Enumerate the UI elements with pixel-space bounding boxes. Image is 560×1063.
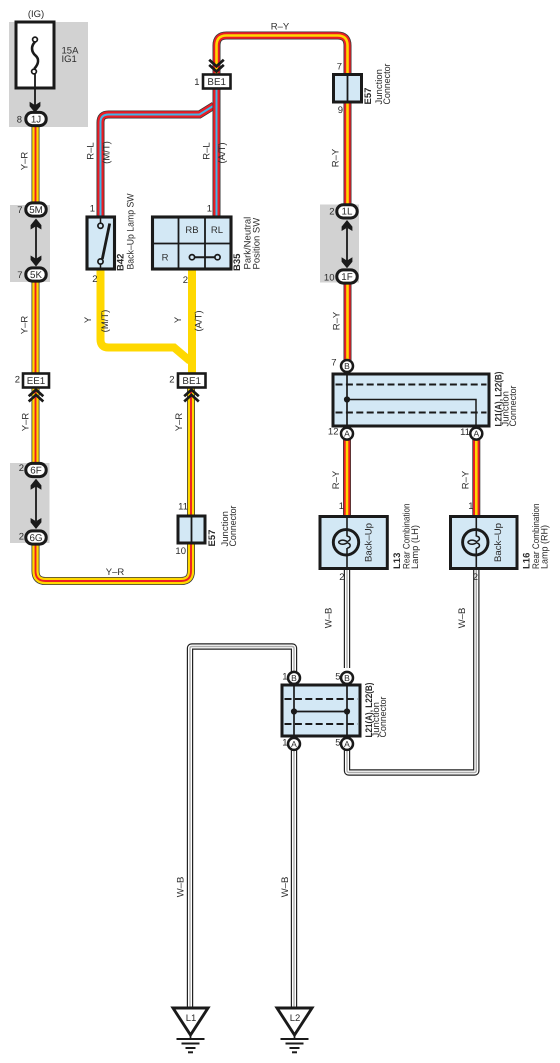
- svg-text:1F: 1F: [341, 272, 352, 283]
- wire Y-R: 6G down, right along bottom, up to E57 pin 10: [36, 540, 192, 581]
- svg-text:11: 11: [460, 427, 470, 438]
- pin circle A5 (junction lower): [341, 738, 353, 750]
- svg-text:R–Y: R–Y: [461, 470, 472, 489]
- svg-text:1: 1: [468, 501, 473, 512]
- connector rect BE1 (top, pin 1): [203, 75, 231, 89]
- wire R-Y: junction 12A down to L13 pin 1: [343, 439, 351, 519]
- wire R-L (M/T): B42 pin 1 up, right, diagonal to A/T line: [101, 106, 215, 220]
- svg-text:L1: L1: [186, 1013, 197, 1024]
- svg-text:W–B: W–B: [280, 877, 291, 898]
- svg-text:Lamp (RH): Lamp (RH): [540, 525, 551, 569]
- pin circle B5 (junction lower): [341, 672, 353, 684]
- svg-text:A: A: [473, 429, 479, 439]
- svg-text:9: 9: [338, 105, 343, 116]
- svg-text:2: 2: [183, 275, 188, 286]
- svg-text:2: 2: [169, 375, 174, 386]
- svg-text:Y–R: Y–R: [21, 413, 32, 432]
- double arrow 1L-1F: [342, 220, 353, 268]
- svg-text:Y–R: Y–R: [174, 413, 185, 432]
- wire Y (M/T): B42 pin 2 to merge: [101, 268, 191, 361]
- svg-text:1J: 1J: [31, 114, 41, 125]
- wire Y-R: EE1 to 6F: [32, 385, 40, 467]
- arrow from fuse to 1J: [30, 74, 41, 113]
- connector oval 1F: [337, 270, 357, 283]
- pin circle B1 (junction lower): [288, 672, 300, 684]
- lamp L13 Rear Combination Lamp LH: [320, 517, 387, 569]
- svg-text:R–Y: R–Y: [331, 470, 342, 489]
- svg-text:1: 1: [207, 204, 212, 215]
- svg-text:Y–R: Y–R: [20, 316, 31, 335]
- svg-text:5: 5: [335, 672, 340, 683]
- svg-text:1: 1: [339, 501, 344, 512]
- svg-text:Connector: Connector: [378, 697, 389, 738]
- svg-text:7: 7: [331, 358, 336, 369]
- svg-text:R–L: R–L: [86, 142, 97, 159]
- svg-text:Back–Up Lamp SW: Back–Up Lamp SW: [126, 193, 137, 269]
- svg-text:10: 10: [324, 273, 335, 284]
- svg-text:(M/T): (M/T): [100, 310, 111, 333]
- chevrons above BE1 top: [209, 60, 224, 72]
- junction connector E57 (top right): [334, 75, 362, 103]
- svg-text:R–L: R–L: [202, 142, 213, 159]
- pin circle A1 (junction lower): [288, 738, 300, 750]
- svg-text:(A/T): (A/T): [194, 310, 205, 331]
- junction connector L21(A),L22(B) lower: [282, 685, 360, 736]
- svg-text:E57: E57: [207, 530, 218, 547]
- wire W-B: L16 pin 2 down, left, up to junction A5: [347, 567, 476, 773]
- wire W-B: junction A1 down to ground L2: [291, 749, 297, 1009]
- svg-text:Connector: Connector: [508, 386, 519, 427]
- svg-text:R–Y: R–Y: [331, 148, 342, 167]
- svg-text:7: 7: [337, 62, 342, 73]
- svg-text:L2: L2: [290, 1013, 301, 1024]
- svg-text:W–B: W–B: [176, 877, 187, 898]
- svg-text:Position SW: Position SW: [252, 218, 263, 270]
- svg-text:2: 2: [329, 207, 334, 218]
- svg-text:1: 1: [194, 77, 199, 88]
- shield gray box around 5M/5K connectors: [10, 205, 50, 282]
- double arrow 5M-5K: [31, 219, 42, 267]
- chevrons below EE1: [29, 390, 44, 402]
- wire Y-R: 1J to 5M: [32, 122, 40, 206]
- svg-text:B35: B35: [232, 253, 243, 271]
- chevrons below BE1 pin2: [184, 390, 199, 402]
- switch B42 Back-Up Lamp SW: [87, 217, 115, 269]
- svg-text:B: B: [291, 673, 297, 683]
- wire Y-R: 5K to EE1: [32, 280, 40, 380]
- connector rect EE1: [23, 374, 49, 388]
- svg-text:2: 2: [339, 572, 344, 583]
- connector oval 6F: [26, 463, 46, 476]
- shield gray box around fuse IG: [9, 22, 88, 127]
- wire R-Y: BE1 top loop over to E57 pin 7: [217, 36, 348, 79]
- svg-text:12: 12: [328, 427, 339, 438]
- svg-text:11: 11: [178, 502, 188, 513]
- svg-text:BE1: BE1: [182, 376, 201, 387]
- svg-text:5: 5: [335, 738, 340, 749]
- svg-text:6G: 6G: [29, 533, 42, 544]
- wire Y (A/T): B35 pin 2 to BE1: [188, 268, 196, 375]
- svg-text:Y–R: Y–R: [106, 567, 125, 578]
- svg-text:IG1: IG1: [62, 54, 77, 65]
- switch B35 Park/Neutral Position SW: [153, 217, 232, 269]
- pin circle B (junction upper): [341, 360, 353, 372]
- wire Y-R: BE1 to E57 pin 11: [187, 385, 195, 520]
- svg-text:RL: RL: [211, 225, 223, 236]
- wire W-B: L13 pin 2 down to junction B5: [344, 567, 350, 668]
- svg-text:2: 2: [15, 375, 20, 386]
- svg-text:Y–R: Y–R: [20, 152, 31, 171]
- svg-text:Connector: Connector: [382, 64, 393, 105]
- junction connector L21(A),L22(B) upper: [333, 374, 489, 426]
- shield gray box around 1L/1F connectors: [320, 205, 359, 283]
- ground L1: [173, 1008, 208, 1052]
- svg-text:B: B: [344, 673, 350, 683]
- svg-text:A: A: [344, 739, 350, 749]
- svg-text:Y: Y: [173, 316, 184, 323]
- svg-text:8: 8: [17, 115, 22, 126]
- wire R-Y: junction 11A down to L16 pin 1: [472, 439, 480, 519]
- svg-text:Back–Up: Back–Up: [364, 523, 375, 562]
- svg-text:W–B: W–B: [324, 608, 335, 629]
- svg-text:R–Y: R–Y: [271, 22, 290, 33]
- svg-text:A: A: [344, 429, 350, 439]
- svg-text:B: B: [344, 361, 350, 371]
- svg-text:RB: RB: [185, 225, 198, 236]
- svg-text:1L: 1L: [342, 207, 353, 218]
- svg-text:2: 2: [473, 572, 478, 583]
- connector oval 5M: [26, 203, 46, 216]
- svg-text:1: 1: [282, 672, 287, 683]
- wire R-Y: 1F down to junction B: [344, 282, 352, 361]
- ground L2: [277, 1008, 312, 1052]
- svg-text:2: 2: [19, 531, 24, 542]
- svg-text:E57: E57: [363, 88, 374, 105]
- shield gray box around 6F/6G connectors: [10, 463, 50, 543]
- connector oval 6G: [26, 531, 46, 544]
- svg-text:7: 7: [17, 205, 22, 216]
- fuse 15A IG1: [16, 22, 54, 88]
- lamp L16 Rear Combination Lamp RH: [451, 517, 518, 569]
- svg-text:1: 1: [90, 204, 95, 215]
- double arrow 6F-6G: [31, 479, 42, 529]
- svg-text:R: R: [162, 253, 169, 264]
- svg-text:W–B: W–B: [457, 608, 468, 629]
- connector rect BE1 (pin 2): [178, 374, 206, 388]
- svg-text:(A/T): (A/T): [217, 142, 228, 163]
- svg-text:BE1: BE1: [207, 77, 226, 88]
- connector oval 5K: [26, 268, 46, 281]
- svg-text:1: 1: [282, 738, 287, 749]
- svg-text:Lamp (LH): Lamp (LH): [410, 525, 421, 569]
- svg-text:Connector: Connector: [228, 506, 239, 547]
- pin circle A 12 (junction upper): [341, 428, 353, 440]
- svg-text:2: 2: [19, 463, 24, 474]
- svg-text:R–Y: R–Y: [332, 311, 343, 330]
- svg-text:6F: 6F: [30, 465, 41, 476]
- svg-text:5M: 5M: [29, 205, 43, 216]
- svg-text:7: 7: [17, 270, 22, 281]
- svg-text:EE1: EE1: [27, 376, 46, 387]
- svg-text:(M/T): (M/T): [102, 141, 113, 164]
- junction connector E57 (left): [178, 516, 205, 543]
- svg-text:A: A: [291, 739, 297, 749]
- connector oval 1J: [26, 112, 46, 125]
- svg-text:5K: 5K: [30, 270, 42, 281]
- svg-text:Y: Y: [83, 316, 94, 323]
- svg-text:(IG): (IG): [28, 9, 44, 20]
- wire R-L (A/T): BE1 down to B35 pin 1: [213, 87, 221, 219]
- wire W-B: junction B1 up, left, down to ground L1: [190, 647, 294, 1010]
- svg-text:Back–Up: Back–Up: [493, 523, 504, 562]
- svg-text:10: 10: [175, 546, 186, 557]
- svg-text:2: 2: [92, 274, 97, 285]
- connector oval 1L: [337, 205, 357, 218]
- pin circle A 11 (junction upper): [470, 428, 482, 440]
- wire R-Y: E57 pin 9 down to 1L: [344, 100, 352, 206]
